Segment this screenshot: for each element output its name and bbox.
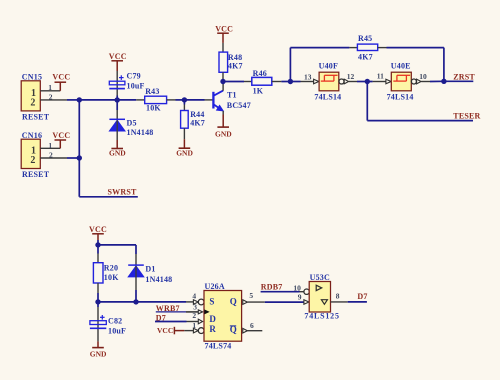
svg-text:GND: GND (176, 149, 193, 158)
svg-text:VCC: VCC (52, 72, 70, 81)
svg-text:2: 2 (30, 155, 35, 166)
svg-text:CN16: CN16 (22, 131, 42, 140)
svg-text:1N4148: 1N4148 (145, 275, 172, 284)
svg-text:2: 2 (49, 93, 53, 102)
svg-text:R45: R45 (358, 34, 372, 43)
svg-text:ZRST: ZRST (453, 72, 475, 81)
svg-text:GND: GND (215, 130, 232, 139)
svg-text:RESET: RESET (22, 112, 50, 121)
svg-text:74LS74: 74LS74 (205, 341, 232, 350)
svg-text:5: 5 (249, 291, 253, 300)
svg-text:VCC: VCC (89, 225, 107, 234)
svg-text:4K7: 4K7 (228, 61, 243, 70)
svg-text:10: 10 (419, 72, 427, 81)
svg-text:10: 10 (293, 284, 301, 293)
svg-text:VCC: VCC (157, 326, 173, 335)
svg-text:R43: R43 (145, 87, 159, 96)
svg-text:4K7: 4K7 (190, 118, 205, 127)
svg-text:RESET: RESET (22, 170, 50, 179)
svg-text:1: 1 (48, 141, 52, 150)
svg-text:U26A: U26A (205, 282, 225, 291)
svg-text:C79: C79 (127, 72, 141, 81)
svg-text:2: 2 (30, 97, 35, 108)
svg-text:1N4148: 1N4148 (127, 128, 154, 137)
svg-text:10K: 10K (146, 103, 161, 112)
svg-text:GND: GND (109, 148, 126, 157)
svg-text:D7: D7 (357, 292, 367, 301)
svg-text:U53C: U53C (310, 273, 330, 282)
svg-text:RDB7: RDB7 (261, 282, 283, 291)
svg-text:T1: T1 (227, 90, 237, 99)
svg-text:10uF: 10uF (108, 327, 126, 336)
svg-text:2: 2 (49, 150, 53, 159)
svg-text:12: 12 (347, 72, 355, 81)
svg-text:8: 8 (336, 291, 340, 300)
svg-text:VCC: VCC (52, 131, 70, 140)
svg-text:R: R (209, 324, 216, 334)
svg-text:BC547: BC547 (227, 101, 251, 110)
svg-text:13: 13 (304, 73, 312, 82)
svg-text:10K: 10K (104, 273, 119, 282)
svg-text:U40E: U40E (391, 62, 411, 71)
svg-text:SWRST: SWRST (108, 188, 137, 197)
svg-text:D1: D1 (145, 265, 155, 274)
svg-text:S: S (209, 297, 214, 307)
svg-text:TESER: TESER (453, 112, 480, 121)
svg-text:4K7: 4K7 (358, 53, 373, 62)
svg-text:CN15: CN15 (22, 72, 42, 81)
svg-text:VCC: VCC (215, 24, 233, 33)
svg-text:C82: C82 (108, 317, 122, 326)
svg-text:U40F: U40F (319, 62, 338, 71)
svg-text:GND: GND (90, 350, 107, 359)
svg-text:74LS14: 74LS14 (314, 92, 341, 101)
svg-text:1K: 1K (253, 87, 264, 96)
svg-text:VCC: VCC (109, 52, 127, 61)
svg-text:R46: R46 (253, 69, 267, 78)
svg-text:9: 9 (298, 292, 302, 301)
svg-text:11: 11 (377, 72, 384, 81)
svg-text:74LS125: 74LS125 (304, 312, 339, 321)
svg-text:R20: R20 (104, 264, 118, 273)
svg-text:1: 1 (48, 83, 52, 92)
svg-text:D: D (209, 314, 216, 324)
svg-text:D5: D5 (127, 119, 137, 128)
svg-text:74LS14: 74LS14 (387, 92, 414, 101)
svg-text:Q: Q (230, 297, 237, 307)
svg-text:2: 2 (192, 311, 196, 320)
svg-text:10uF: 10uF (127, 82, 145, 91)
svg-text:6: 6 (250, 321, 254, 330)
